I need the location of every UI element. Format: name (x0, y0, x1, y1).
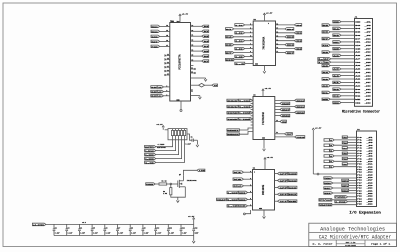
wire (341, 54, 355, 56)
net label PGM (151, 45, 160, 48)
svg-text:+3.3V: +3.3V (182, 12, 189, 15)
net label D3 (226, 36, 234, 39)
svg-text:10uF: 10uF (195, 233, 199, 235)
capacitor C10 0.1uF (155, 224, 157, 229)
net label D2 (202, 35, 209, 38)
net label IOWR (227, 118, 238, 121)
svg-text:_#19: _#19 (367, 185, 373, 187)
svg-text:19: 19 (167, 74, 169, 76)
svg-text:_#21: _#21 (367, 190, 373, 192)
svg-text:13: 13 (276, 43, 278, 45)
svg-text:15: 15 (276, 35, 278, 37)
svg-text:26: 26 (191, 90, 193, 92)
net label 1-CE (227, 205, 238, 208)
ground (263, 216, 266, 218)
wire rail to J2 (313, 173, 356, 175)
net label CLK (212, 84, 218, 87)
wire power rail (46, 223, 194, 225)
wire (245, 32, 254, 34)
connector J2 I/O Expansion (357, 131, 377, 207)
capacitor C2 0.1uF (53, 224, 55, 229)
svg-text:17: 17 (167, 66, 169, 68)
svg-text:SCLK: SCLK (289, 193, 298, 196)
svg-text:_#1: _#1 (365, 21, 371, 23)
wire (160, 25, 170, 27)
svg-text:_#16: _#16 (367, 177, 373, 179)
svg-text:P23: P23 (357, 198, 362, 200)
svg-text:P20: P20 (357, 190, 362, 192)
svg-text:17: 17 (276, 28, 278, 30)
wire (333, 182, 357, 184)
svg-text:P8: P8 (357, 158, 362, 160)
svg-text:P1: P1 (357, 140, 362, 142)
J2 net label PA4 (342, 147, 347, 150)
J1 pin row 9 net label OE (333, 47, 341, 50)
svg-text:SCLK: SCLK (234, 185, 243, 188)
net label SDO (278, 179, 288, 182)
svg-text:_#25: _#25 (365, 62, 371, 64)
svg-text:TXD0: TXD0 (324, 177, 331, 180)
svg-text:1-SDO: 1-SDO (158, 86, 162, 89)
wire (252, 99, 255, 101)
net label IRQ (275, 121, 280, 123)
wire (252, 112, 255, 114)
net label CE (278, 200, 288, 203)
net label RESET wide (227, 129, 240, 132)
svg-text:0.1uF: 0.1uF (169, 233, 174, 235)
svg-text:PIC16F877A: PIC16F877A (179, 54, 182, 70)
net label 1-SDO (227, 198, 238, 201)
svg-text:_#35: _#35 (365, 79, 371, 81)
capacitor C11 0.1uF (167, 224, 169, 229)
svg-text:0.1uF: 0.1uF (93, 233, 98, 235)
svg-text:IRLML6402: IRLML6402 (187, 179, 197, 182)
svg-text:1-SDO: 1-SDO (145, 157, 155, 160)
net label 1-CE (145, 161, 156, 164)
wire (191, 45, 202, 47)
svg-text:_#21: _#21 (365, 55, 371, 57)
net label 1-SDI (227, 191, 238, 194)
net label IORD (227, 112, 238, 115)
wire (156, 140, 173, 147)
svg-text:VCC: VCC (355, 62, 360, 64)
wire (275, 180, 278, 182)
wire (276, 44, 285, 46)
svg-text:P7: P7 (357, 156, 362, 158)
svg-text:_#7: _#7 (367, 153, 373, 155)
wire RN1 to C1 (187, 134, 192, 140)
wire (334, 160, 356, 162)
svg-text:INT1: INT1 (342, 184, 349, 187)
net label D5 (202, 50, 209, 53)
svg-text:P3: P3 (357, 145, 362, 147)
wire (234, 44, 253, 46)
net label SCLK (278, 193, 288, 196)
crystal Y1 (191, 84, 199, 86)
J2 net label PA3 (324, 144, 329, 147)
svg-text:10: 10 (250, 55, 252, 57)
net label G2 wide (235, 62, 245, 64)
capacitor C13 10uF (193, 224, 195, 229)
capacitor C4 0.1uF (78, 224, 80, 229)
wire (341, 21, 355, 23)
svg-text:C10: C10 (156, 227, 159, 229)
resistor RN1 element 5 (184, 130, 186, 135)
svg-text:P10: P10 (357, 164, 362, 166)
open terminal circle (180, 110, 182, 112)
svg-text:37: 37 (166, 45, 168, 47)
net label MD1 (294, 32, 301, 35)
svg-text:D3: D3 (355, 25, 360, 27)
svg-text:1-SDI: 1-SDI (158, 90, 162, 93)
svg-text:1-SCLK: 1-SCLK (145, 149, 155, 152)
wire (330, 51, 354, 53)
svg-text:+3.3V: +3.3V (265, 87, 272, 90)
net label MRD (295, 111, 305, 114)
ground (263, 71, 266, 73)
wire (191, 35, 202, 37)
wire (330, 38, 354, 40)
svg-text:33: 33 (166, 25, 168, 27)
svg-text:20: 20 (191, 30, 193, 32)
net label MD5 (285, 36, 294, 39)
ground (263, 149, 266, 151)
net label SCLK (233, 185, 244, 188)
svg-text:RXD0: RXD0 (324, 182, 331, 185)
wire stub pin 26 (191, 90, 193, 92)
J2 net label PC2 (342, 163, 347, 166)
net label D0 (202, 25, 209, 28)
no-connect X (164, 55, 166, 57)
wire U3 gnd (263, 140, 265, 149)
wire (193, 236, 195, 241)
J1 pin row 2 net label D3 (322, 24, 330, 27)
svg-text:C8: C8 (131, 227, 133, 229)
J1 pin row 12 net label A7 (318, 58, 324, 61)
net label ALM/RTC (145, 145, 156, 148)
wire (331, 61, 355, 63)
svg-text:ALM/RTC: ALM/RTC (145, 146, 154, 149)
svg-text:CA2 Microdrive/RTC Adapter: CA2 Microdrive/RTC Adapter (319, 235, 392, 241)
svg-text:DMACK: DMACK (227, 133, 240, 136)
svg-text:_#11: _#11 (365, 38, 371, 40)
svg-text:CE1: CE1 (355, 42, 360, 44)
svg-text:0.1uF: 0.1uF (144, 233, 149, 235)
wire (330, 44, 354, 46)
svg-text:CD2: CD2 (355, 102, 360, 104)
net label MISO (151, 30, 160, 32)
wire (275, 102, 280, 104)
wire (245, 24, 254, 26)
svg-text:OE: OE (355, 48, 360, 50)
net label MD7 (285, 51, 294, 54)
resistor R2 1.5K (170, 184, 172, 188)
svg-text:_#22: _#22 (367, 193, 373, 195)
wire (276, 36, 285, 38)
svg-text:25: 25 (191, 55, 193, 57)
wire (164, 95, 170, 97)
J2 net label PA6 (342, 152, 347, 155)
wire (330, 71, 354, 73)
net label X1 (233, 171, 244, 174)
svg-text:0.1uF: 0.1uF (106, 233, 111, 235)
J2 net label TXD0 (324, 177, 333, 179)
junction (170, 183, 172, 185)
svg-text:+3.3: +3.3 (82, 222, 86, 224)
svg-text:C5: C5 (93, 227, 95, 229)
svg-text:0.1uF: 0.1uF (182, 233, 187, 235)
net label MCS1 (295, 105, 305, 108)
net label D1 (226, 28, 234, 31)
wire nc stub (167, 62, 170, 64)
svg-text:P25: P25 (357, 204, 362, 206)
wire (245, 56, 254, 58)
svg-text:0.1uF: 0.1uF (131, 233, 136, 235)
J2 net label VBAT wide (319, 203, 332, 206)
wire (341, 34, 355, 36)
J2 net label INT1 (342, 184, 349, 187)
svg-text:+3.3V: +3.3V (156, 123, 163, 126)
svg-text:GND: GND (259, 208, 262, 210)
J1 pin row 13 net label VCC (318, 61, 324, 64)
svg-text:C3: C3 (68, 227, 70, 229)
J1 pin row 11 net label A8 (333, 54, 341, 57)
J1 pin row 4 net label D5 (322, 31, 330, 33)
J1 pin row 23 net label D2 (333, 95, 341, 98)
J1 pin row 19 net label A1 (333, 81, 341, 84)
J2 net label PA5 (324, 149, 329, 152)
J2 net label 3.3VSB wide (335, 200, 348, 203)
svg-text:_#37: _#37 (365, 82, 371, 84)
wire (347, 147, 356, 149)
svg-text:_#20: _#20 (367, 188, 373, 190)
svg-text:P11: P11 (357, 166, 362, 168)
svg-text:1-SDO: 1-SDO (227, 198, 238, 201)
wire (164, 91, 170, 93)
svg-text:P2: P2 (357, 142, 362, 144)
svg-text:1: 1 (254, 172, 255, 174)
wire (330, 24, 354, 26)
J1 pin row 21 net label D0 (333, 88, 341, 91)
wire (330, 31, 354, 33)
svg-text:C13: C13 (195, 227, 198, 229)
wire (194, 139, 198, 141)
J2 net label PA0 (342, 136, 347, 139)
wire (349, 185, 357, 187)
net label D4 (202, 45, 209, 48)
wire (191, 55, 202, 57)
wire (275, 200, 278, 202)
wire (334, 166, 356, 168)
svg-text:MISO: MISO (342, 189, 349, 192)
wire (276, 24, 295, 26)
wire nc stub (167, 66, 170, 68)
svg-text:P17: P17 (357, 182, 362, 184)
wire (341, 95, 355, 97)
wire (160, 45, 170, 47)
svg-text:23: 23 (191, 45, 193, 47)
J1 pin row 1 net label GND (333, 20, 341, 23)
svg-text:D2: D2 (355, 96, 360, 98)
svg-text:2: 2 (250, 118, 251, 120)
net label D7 (202, 60, 209, 63)
svg-text:MRST: MRST (282, 108, 291, 111)
J1 pin row 16 net label A4 (322, 71, 330, 74)
wire (334, 150, 356, 152)
svg-text:_#3: _#3 (367, 142, 373, 144)
net label 32KHZ (278, 172, 288, 175)
svg-text:VBATIN: VBATIN (319, 204, 332, 207)
capacitor C9 0.1uF (142, 224, 144, 229)
J2 net label PC1 (324, 160, 329, 163)
wire to +3.3V (193, 219, 195, 224)
wire (276, 48, 295, 50)
net label DIR wide (226, 58, 234, 61)
wire (191, 30, 202, 32)
net label 1-SCLK (151, 95, 157, 98)
svg-text:WE: WE (355, 99, 360, 101)
svg-text:P18: P18 (357, 185, 362, 187)
svg-text:INT0: INT0 (342, 179, 349, 182)
wire (276, 28, 285, 30)
svg-text:_#11: _#11 (367, 164, 373, 166)
svg-text:19: 19 (191, 25, 193, 27)
svg-text:2: 2 (250, 111, 251, 113)
svg-text:RTC/ALM: RTC/ALM (319, 199, 332, 202)
svg-text:26: 26 (191, 60, 193, 62)
wire (275, 193, 278, 195)
ground (196, 140, 198, 144)
svg-text:3.3VSB: 3.3VSB (335, 201, 346, 204)
svg-text:_#27: _#27 (365, 65, 371, 67)
resistor RN1 element 4 (181, 130, 183, 135)
net label 1-SDI (145, 153, 156, 156)
svg-text:_#2: _#2 (367, 140, 373, 142)
svg-text:16: 16 (276, 31, 278, 33)
svg-text:P0: P0 (357, 137, 362, 139)
net label 1-SDO (145, 157, 156, 160)
svg-text:2: 2 (250, 99, 251, 101)
wire (252, 118, 255, 120)
svg-text:2-D0: 2-D0 (235, 24, 243, 27)
J1 pin row 3 net label D4 (333, 27, 341, 30)
svg-text:MISO: MISO (152, 30, 159, 33)
wire (333, 187, 357, 189)
svg-text:DS1306E: DS1306E (262, 184, 265, 195)
resistor RN1 element 2 (175, 130, 177, 135)
net label D6 (202, 55, 209, 58)
svg-text:_#25: _#25 (367, 201, 373, 203)
net label RST (151, 40, 160, 43)
svg-text:11: 11 (276, 51, 278, 53)
svg-text:C11: C11 (169, 227, 172, 229)
J1 pin row 15 net label A5 (333, 68, 341, 71)
svg-text:D6: D6 (355, 35, 360, 37)
svg-text:D0: D0 (355, 89, 360, 91)
svg-text:_#9: _#9 (365, 35, 371, 37)
wire (275, 111, 295, 113)
net label 2-D4 (235, 40, 245, 43)
net label MD6 (285, 44, 294, 47)
wire (334, 155, 356, 157)
svg-text:1-SDI: 1-SDI (145, 153, 155, 156)
wire nc stub (167, 74, 170, 76)
wire (341, 75, 355, 77)
J1 pin row 24 net label WE (322, 98, 330, 101)
power +3.3V at rail end (193, 218, 195, 220)
J2 net label PWREN wide (335, 196, 348, 199)
wire (191, 60, 202, 62)
svg-text:I/O Expansion: I/O Expansion (349, 210, 381, 215)
svg-text:o2: o2 (191, 72, 193, 74)
net label SCK (151, 35, 160, 38)
net label D7 (226, 51, 234, 54)
wire nc stub (167, 58, 170, 60)
J2 net label INT0 (342, 179, 349, 182)
open terminal circle (244, 213, 246, 215)
svg-text:_#33: _#33 (365, 75, 371, 77)
svg-text:_#10: _#10 (367, 161, 373, 163)
net label D3 (202, 40, 209, 43)
J2 net label RTCALM wide (319, 199, 332, 202)
wire (160, 40, 170, 42)
net label MREQ (280, 114, 290, 117)
svg-text:_#17: _#17 (367, 180, 373, 182)
svg-text:35: 35 (166, 35, 168, 37)
svg-text:_#15: _#15 (367, 174, 373, 176)
net label PDIAG (275, 136, 295, 138)
J2 net label SDA (324, 192, 333, 194)
svg-text:+3.3V: +3.3V (188, 215, 195, 218)
svg-text:+3.3V: +3.3V (267, 156, 274, 159)
svg-text:V: V (268, 23, 269, 25)
wire (276, 32, 295, 34)
svg-text:_#3: _#3 (365, 25, 371, 27)
wire U4 gnd (263, 210, 265, 216)
svg-text:0.1uF: 0.1uF (80, 233, 85, 235)
J2 net label SCL (324, 187, 333, 189)
capacitor C8 0.1uF (129, 224, 131, 229)
svg-text:GND: GND (355, 21, 360, 23)
svg-text:P21: P21 (357, 193, 362, 195)
wire (347, 158, 356, 160)
net label 2-D0 (235, 24, 245, 27)
J2 net label PC3 (324, 165, 329, 168)
wire (341, 88, 355, 90)
wire (234, 36, 253, 38)
capacitor C6 0.1uF (104, 224, 106, 229)
net label MOSI (151, 25, 160, 28)
wire (191, 50, 202, 52)
svg-text:_#19: _#19 (365, 52, 371, 54)
svg-text:P9: P9 (357, 161, 362, 163)
svg-text:0.1uF: 0.1uF (68, 233, 73, 235)
wire (330, 92, 354, 94)
wire (276, 52, 285, 54)
capacitor C1 0.1uF (191, 139, 193, 142)
svg-text:PWREN: PWREN (335, 196, 347, 199)
J1 pin row 20 net label A0 (322, 85, 330, 88)
svg-text:_#18: _#18 (367, 182, 373, 184)
net label 3.3VIN power input (32, 223, 46, 226)
capacitor C12 0.1uF (180, 224, 182, 229)
net label SDI (278, 186, 288, 189)
net label 1-SCLK (145, 149, 156, 152)
J2 net label PA2 (342, 141, 347, 144)
svg-text:_#6: _#6 (367, 150, 373, 152)
svg-text:C7: C7 (118, 227, 120, 229)
power +3.3V at U4 top (264, 159, 266, 170)
